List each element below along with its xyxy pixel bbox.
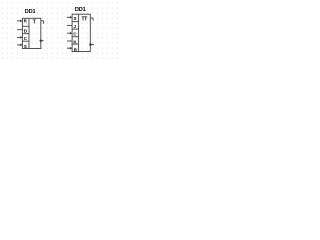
pin wire: input C of right DD1 — [67, 32, 71, 34]
flip-flop DD1 (JK-trigger) body — [72, 14, 90, 51]
arrowhead on pin R — [20, 20, 22, 23]
svg-text:S: S — [24, 44, 27, 49]
flip-flop DD1 (T-trigger) body — [22, 18, 40, 48]
JK cell divider J/C — [72, 28, 79, 30]
wire stub down at Q pin end — [92, 18, 94, 21]
arrowhead on pin R — [70, 47, 72, 50]
pin wire: output Qbar of right DD1 — [91, 44, 94, 46]
DD1 cell divider R/D — [22, 25, 29, 27]
DD1 cell divider D/C — [22, 33, 29, 35]
pin wire: output Qbar of left DD1 — [41, 40, 44, 42]
arrowhead on pin C (dynamic input) — [70, 32, 72, 35]
arrowhead on pin S — [70, 16, 72, 19]
arrowhead on pin C (dynamic input) — [20, 36, 22, 39]
JK cell divider C/K — [72, 36, 79, 38]
pin wire: input D of left DD1 — [17, 29, 22, 31]
background grid — [0, 0, 121, 75]
pin wire: output Q of right DD1 — [90, 17, 93, 19]
pin wire: input C of left DD1 — [17, 36, 21, 38]
pin wire: input S of left DD1 — [17, 44, 21, 46]
pin wire: input J of right DD1 — [67, 25, 72, 27]
svg-text:TT: TT — [82, 17, 88, 23]
wire stub down at Q pin end — [43, 21, 45, 24]
pin wire: input R of left DD1 — [17, 20, 21, 22]
pin wire: input K of right DD1 — [67, 40, 72, 42]
svg-text:DD1: DD1 — [75, 7, 86, 13]
JK cell divider K/R — [72, 43, 79, 45]
svg-text:DD1: DD1 — [25, 9, 36, 15]
svg-text:S: S — [73, 16, 76, 21]
inversion dot: output Qbar of left DD1 — [40, 39, 43, 42]
JK cell divider S/J — [72, 21, 79, 23]
svg-text:T: T — [33, 20, 36, 26]
DD1 cell divider C/S — [22, 40, 29, 42]
inversion dot: output Qbar of right DD1 — [89, 43, 92, 46]
pin wire: output Q of left DD1 — [41, 20, 44, 22]
pin wire: input R of right DD1 — [67, 47, 71, 49]
arrowhead on pin S — [20, 44, 22, 47]
JK label-column divider — [78, 14, 80, 51]
DD1 label-column divider — [28, 18, 30, 48]
pin wire: input S of right DD1 — [67, 16, 71, 18]
